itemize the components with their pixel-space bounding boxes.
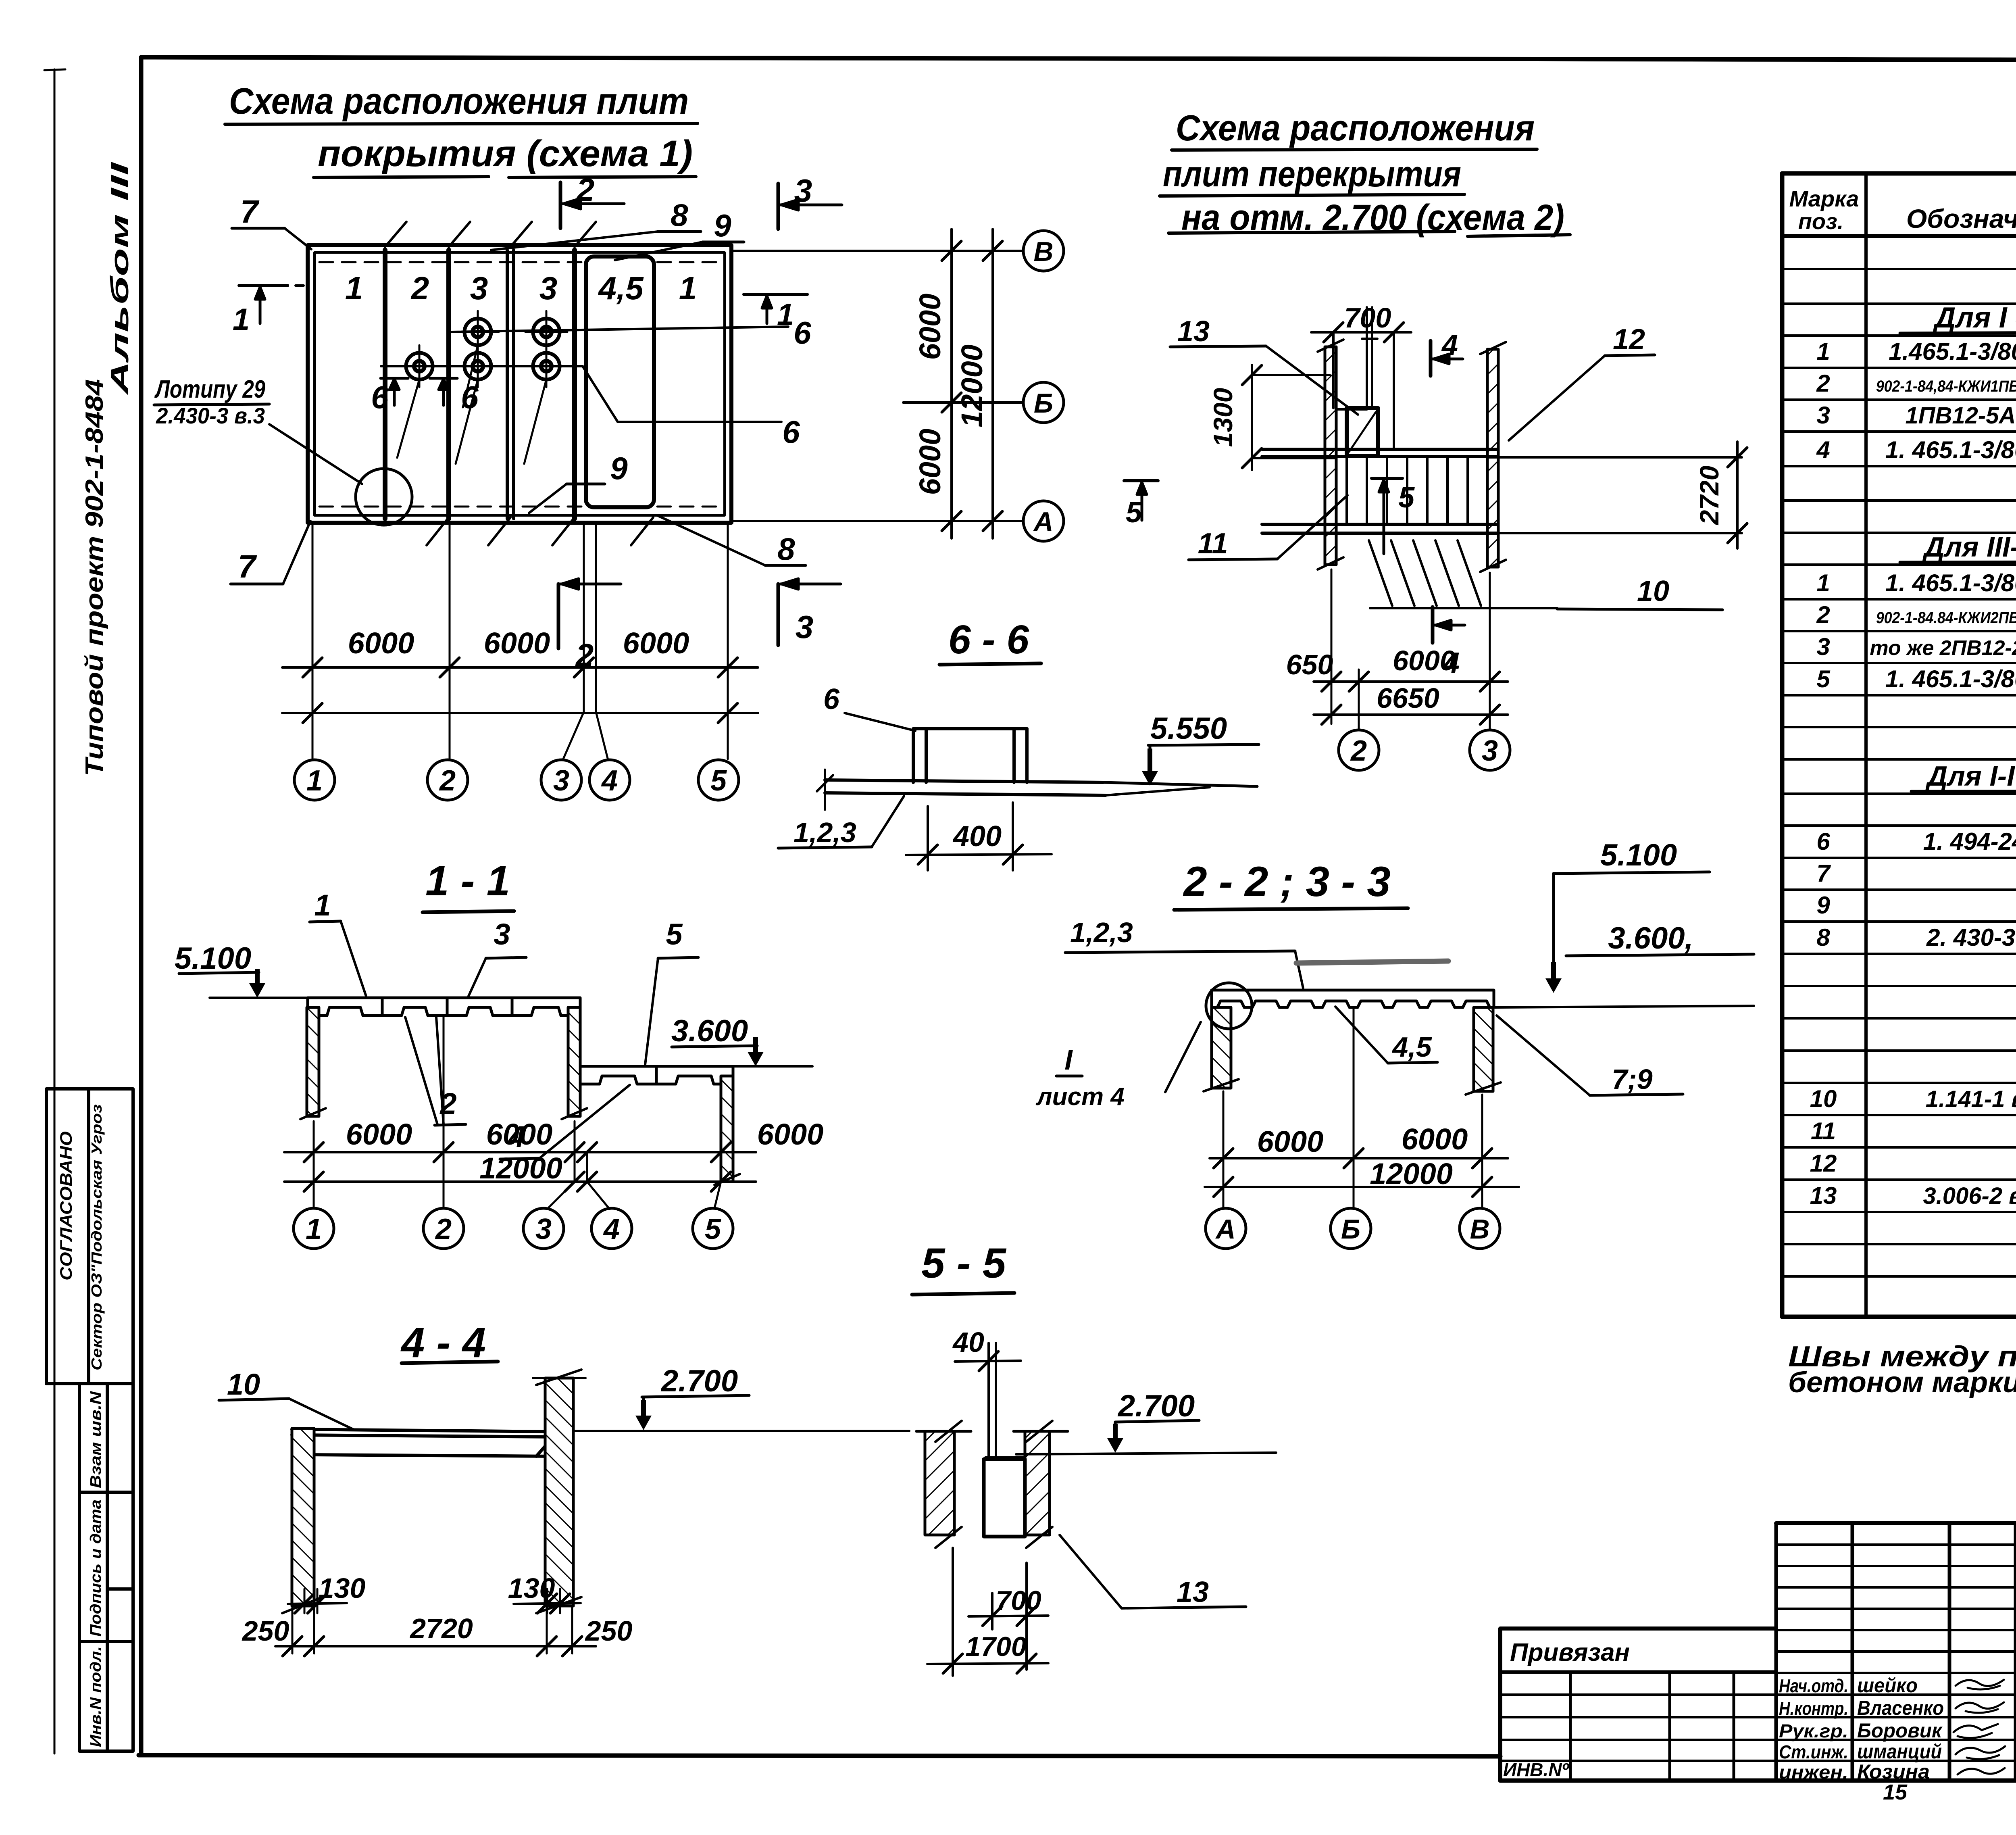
svg-text:5: 5 (1126, 496, 1142, 529)
5-5 dim 1700 (927, 1548, 1048, 1676)
svg-text:3: 3 (494, 917, 510, 951)
svg-text:5: 5 (705, 1213, 721, 1245)
plate joint line x=1425 (572, 250, 577, 519)
svg-text:7: 7 (1816, 860, 1831, 887)
svg-text:Для I-IV снеговых районов: Для I-IV снеговых районов (1925, 760, 2016, 792)
label 13 schema2 (1170, 315, 1358, 415)
svg-text:1,2,3: 1,2,3 (793, 817, 856, 848)
section mark 3 bottom (778, 579, 841, 645)
svg-text:7;9: 7;9 (1612, 1063, 1652, 1095)
svg-text:15: 15 (1883, 1780, 1908, 1804)
svg-text:6000: 6000 (348, 626, 414, 660)
svg-text:2.700: 2.700 (1117, 1389, 1195, 1423)
dimension 650 6000 schema2 (1286, 645, 1508, 691)
svg-text:Привязан: Привязан (1510, 1639, 1630, 1666)
section mark 3 top (778, 173, 842, 229)
svg-text:5.100: 5.100 (1600, 838, 1677, 872)
2-2 label 1,2,3 (1065, 917, 1303, 988)
svg-text:бетоном марки М200 на мелко: бетоном марки М200 на мелком заполнителе… (1788, 1366, 2016, 1399)
title schema 1 line 2 (314, 133, 696, 177)
svg-text:3.006-2 в.П-2: 3.006-2 в.П-2 (1923, 1183, 2016, 1209)
svg-text:5 - 5: 5 - 5 (921, 1240, 1007, 1287)
label 11 schema2 (1189, 495, 1347, 560)
svg-text:1700: 1700 (965, 1631, 1026, 1662)
2-2 label 7;9 (1497, 1016, 1683, 1095)
svg-text:1: 1 (314, 888, 331, 922)
svg-text:650: 650 (1286, 649, 1333, 680)
section 5-5 title (912, 1240, 1014, 1295)
4-4 dims 130 (288, 1572, 581, 1613)
svg-text:2 - 2 ; 3 - 3: 2 - 2 ; 3 - 3 (1183, 858, 1391, 905)
table headers (1789, 186, 2016, 235)
1-1 right wall (714, 1076, 740, 1185)
schema2 top slab (1262, 449, 1497, 457)
schema2 parapet (1336, 307, 1377, 409)
section 6-6 title (939, 617, 1041, 665)
svg-text:Боровик: Боровик (1857, 1719, 1943, 1742)
1-1 leader 5 (645, 917, 698, 1065)
5-5 plate 13 box (984, 1458, 1025, 1537)
svg-text:10: 10 (1637, 575, 1669, 607)
svg-text:Б: Б (1341, 1214, 1360, 1245)
stamp box soglasovano (46, 1089, 133, 1384)
6-6 leader 6 (823, 683, 915, 731)
plate joint line x=955 (383, 250, 387, 519)
svg-text:6 - 6: 6 - 6 (948, 617, 1029, 662)
svg-text:3: 3 (1482, 735, 1498, 767)
svg-text:1.141-1 в. 60: 1.141-1 в. 60 (1926, 1086, 2016, 1112)
svg-text:Обозначение: Обозначение (1906, 204, 2016, 234)
svg-text:3: 3 (535, 1213, 552, 1245)
1-1 bubbles (294, 1208, 334, 1249)
svg-text:2: 2 (1816, 370, 1830, 397)
2-2 dims 6000 (1210, 1122, 1508, 1168)
svg-text:130: 130 (508, 1572, 555, 1604)
title schema 1 line 1 (225, 81, 698, 124)
svg-text:12000: 12000 (479, 1151, 562, 1185)
stakan slanted leaders inside plan (397, 345, 546, 464)
svg-text:СОГЛАСОВАНО: СОГЛАСОВАНО (56, 1131, 75, 1280)
svg-text:I: I (1064, 1044, 1073, 1076)
svg-text:3: 3 (1816, 402, 1830, 429)
svg-text:1: 1 (1816, 338, 1830, 365)
svg-text:1: 1 (306, 1213, 322, 1245)
svg-text:8: 8 (671, 197, 688, 233)
svg-text:В: В (1033, 236, 1053, 267)
schema2 left wall (1318, 340, 1343, 569)
2-2 label I list 4 (1035, 1022, 1201, 1111)
svg-text:6000: 6000 (913, 294, 947, 360)
vertical dimension 12000 right (955, 229, 1002, 538)
6-6 label 1,2,3 (778, 796, 904, 848)
svg-text:6000: 6000 (484, 626, 550, 660)
svg-text:1. 465.1-3/80 вып.5: 1. 465.1-3/80 вып.5 (1885, 569, 2016, 596)
svg-text:5: 5 (1816, 665, 1831, 692)
svg-text:8: 8 (777, 531, 795, 567)
svg-text:9: 9 (714, 208, 731, 243)
svg-text:2: 2 (576, 172, 595, 208)
svg-text:В: В (1470, 1214, 1489, 1245)
svg-text:шманций: шманций (1857, 1740, 1942, 1763)
label po tipu 29 (154, 375, 362, 484)
1-1 roof slab plates (308, 998, 580, 1016)
svg-text:12000: 12000 (1370, 1157, 1453, 1191)
svg-text:6000: 6000 (346, 1118, 412, 1151)
svg-text:Ст.инж.: Ст.инж. (1779, 1741, 1848, 1762)
detail circle on plan (356, 469, 412, 525)
plan outer walls (308, 245, 731, 523)
dimension 700 schema2 (1311, 302, 1411, 449)
svg-text:5: 5 (710, 765, 727, 797)
4-4 extension lines (292, 1589, 572, 1654)
leader label 8 bottom right (657, 515, 806, 567)
svg-text:Сектор ОЗ"Подольская Угроз: Сектор ОЗ"Подольская Угроз (88, 1104, 105, 1370)
svg-text:5: 5 (1398, 482, 1415, 514)
plate joint line x=1113 (446, 250, 451, 519)
2-2 level 3.600 (1566, 921, 1754, 956)
svg-text:Для I - II: Для I - II (1932, 302, 2016, 334)
stamp box podpis i data (79, 1492, 133, 1641)
title schema 2 line 2 (1160, 154, 1464, 196)
svg-text:12: 12 (1810, 1150, 1837, 1177)
svg-text:3: 3 (553, 765, 569, 797)
svg-text:Альбом III: Альбом III (106, 161, 134, 396)
dimension line 6000x3 below plan (282, 626, 758, 677)
svg-text:5.100: 5.100 (175, 941, 251, 976)
2-2 bubbles A B V (1206, 1208, 1246, 1249)
svg-text:7: 7 (238, 548, 257, 584)
svg-text:6: 6 (823, 683, 840, 715)
5-5 level 2.700 (1016, 1389, 1276, 1454)
svg-text:Схема расположения плит: Схема расположения плит (229, 81, 689, 122)
svg-text:6000: 6000 (623, 626, 689, 660)
schema2 lower slab lines (1262, 524, 1497, 533)
schema2 broken plate hatch (1369, 540, 1557, 608)
plate 4,5 rounded outline (586, 256, 654, 507)
svg-text:902-1-84,84-КЖИ1ПВ12-5АтVT-4-1: 902-1-84,84-КЖИ1ПВ12-5АтVT-4-1 (1876, 377, 2016, 395)
2-2 pencil smudge (1296, 961, 1448, 963)
1-1 leader 3 (469, 917, 526, 996)
svg-text:4: 4 (1441, 329, 1458, 361)
svg-text:2.700: 2.700 (660, 1364, 738, 1398)
schema2 right wall (1480, 342, 1506, 572)
plate joint double line x=1266 (507, 250, 514, 519)
outer trim line left (44, 69, 65, 1754)
svg-text:2: 2 (1350, 735, 1367, 767)
svg-text:2. 430-3 в. 3: 2. 430-3 в. 3 (1926, 924, 2016, 951)
2-2 label 4,5 (1335, 1007, 1437, 1063)
svg-text:Взам шв.N: Взам шв.N (87, 1391, 104, 1488)
svg-text:1: 1 (679, 270, 697, 306)
svg-text:1. 465.1-3/80 вып.1: 1. 465.1-3/80 вып.1 (1885, 436, 2016, 463)
leader label 9 top right (615, 208, 744, 260)
1-1 axes below (314, 1016, 721, 1209)
vertical dimension 6000/6000 right (913, 229, 961, 538)
5-5 right wall (1014, 1421, 1068, 1548)
svg-text:1. 494-24 в.1: 1. 494-24 в.1 (1923, 828, 2016, 855)
svg-text:2.430-3 в.3: 2.430-3 в.3 (156, 403, 265, 428)
2-2 level 5.100 (1495, 838, 1754, 1007)
svg-text:2720: 2720 (1694, 465, 1724, 525)
label 10 schema2 (1557, 575, 1722, 610)
title schema 2 line 3 (1168, 198, 1570, 238)
1-1 leader 1 (310, 888, 366, 996)
joint slant ticks top (385, 222, 596, 247)
table data rows (1810, 338, 2016, 1209)
svg-text:2: 2 (1816, 601, 1830, 628)
svg-text:Лотипу 29: Лотипу 29 (154, 375, 266, 403)
svg-text:1: 1 (306, 765, 323, 797)
svg-text:Власенко: Власенко (1857, 1697, 1944, 1719)
svg-text:250: 250 (242, 1615, 289, 1647)
svg-text:8: 8 (1816, 924, 1830, 951)
2-2 dim 12000 (1205, 1157, 1519, 1197)
svg-text:2: 2 (435, 1213, 452, 1245)
svg-text:6: 6 (371, 380, 389, 415)
schema2 axes and dims bottom (1331, 569, 1490, 729)
section mark 4 bottom schema2 (1433, 607, 1465, 679)
svg-text:13: 13 (1177, 315, 1210, 348)
table section titles (1900, 269, 2016, 1049)
title block grid (1776, 1523, 2016, 1781)
stamp box vzam inv (79, 1384, 133, 1492)
2-2 axes below (1223, 1008, 1482, 1208)
svg-text:1: 1 (777, 298, 794, 332)
svg-text:3.600,: 3.600, (1608, 921, 1693, 955)
5-5 dim 700 (968, 1563, 1048, 1670)
svg-text:плит перекрытия: плит перекрытия (1163, 154, 1461, 194)
svg-text:Инв.N подл.: Инв.N подл. (87, 1646, 104, 1747)
svg-text:13: 13 (1177, 1576, 1209, 1608)
row axis leader lines (731, 251, 1023, 521)
svg-text:Типовой проект 902-1-8484: Типовой проект 902-1-8484 (81, 379, 108, 776)
schema2 plate 13 box (1347, 408, 1378, 456)
1-1 dims 6000 (284, 1118, 823, 1162)
svg-text:покрытия (схема 1): покрытия (схема 1) (318, 133, 693, 174)
svg-text:6000: 6000 (1402, 1122, 1468, 1156)
svg-text:6000: 6000 (913, 429, 947, 495)
svg-text:13: 13 (1810, 1182, 1837, 1209)
svg-text:130: 130 (319, 1572, 366, 1604)
4-4 dims 250 2720 250 (242, 1613, 633, 1656)
svg-text:3: 3 (470, 270, 488, 306)
title block privyazan box (1500, 1629, 1776, 1781)
svg-text:3: 3 (1816, 633, 1830, 660)
1-1 level 3.600 (671, 1014, 812, 1066)
svg-text:Козина: Козина (1857, 1760, 1930, 1783)
4-4 right wall (533, 1370, 585, 1613)
svg-text:шейко: шейко (1857, 1674, 1918, 1697)
leader label 8 top right (491, 197, 701, 250)
svg-text:Марка: Марка (1789, 186, 1859, 211)
2-2 detail circle (1206, 983, 1252, 1029)
svg-text:9: 9 (610, 450, 628, 486)
svg-text:11: 11 (1198, 528, 1228, 560)
svg-text:инжен.: инжен. (1779, 1762, 1848, 1783)
svg-text:6: 6 (1816, 828, 1830, 855)
svg-text:6000: 6000 (1257, 1125, 1324, 1158)
5-5 leader 13 (1060, 1535, 1246, 1608)
row bubbles V B A (1023, 231, 1064, 271)
1-1 level 5.100 (175, 941, 308, 998)
section mark 4 top schema2 (1431, 329, 1463, 376)
1-1 leader 2 (405, 1017, 466, 1125)
6-6 cup walls (913, 729, 1027, 782)
svg-text:6000: 6000 (486, 1118, 553, 1151)
svg-text:А: А (1215, 1214, 1235, 1245)
svg-text:2720: 2720 (409, 1613, 473, 1644)
title schema 2 line 1 (1172, 108, 1537, 150)
dimension 2720 schema2 (1489, 442, 1747, 548)
section 4-4 title (400, 1319, 498, 1366)
6-6 dimension 400 (906, 803, 1052, 870)
svg-text:Рук.гр.: Рук.гр. (1779, 1720, 1848, 1741)
svg-text:2: 2 (439, 765, 456, 797)
joint slant ticks bottom (427, 517, 653, 545)
4-4 slab (292, 1429, 558, 1456)
grid axis lines below plan (312, 523, 728, 760)
svg-text:6: 6 (793, 315, 811, 350)
leader line to label 6 lower (381, 366, 800, 450)
svg-text:10: 10 (1810, 1085, 1837, 1112)
leader label 7 top left (232, 194, 311, 249)
svg-text:40: 40 (952, 1326, 984, 1358)
svg-text:1ПВ12-5АтVT-4-2: 1ПВ12-5АтVT-4-2 (1906, 402, 2016, 429)
svg-text:Б: Б (1034, 388, 1053, 419)
2-2 ribbed slab (1212, 990, 1494, 1007)
svg-text:3.600: 3.600 (671, 1014, 748, 1048)
6-6 level 5.550 (1142, 711, 1259, 786)
section mark 5 inner schema2 (1372, 478, 1415, 554)
svg-text:1: 1 (233, 302, 250, 337)
svg-text:то же 2ПВ12-2АтVT-4-2: то же 2ПВ12-2АтVT-4-2 (1870, 636, 2016, 660)
svg-text:6650: 6650 (1377, 682, 1439, 714)
1-1 dim 12000 (284, 1151, 756, 1191)
4-4 left wall (282, 1428, 323, 1613)
svg-text:3: 3 (794, 173, 812, 209)
svg-text:5: 5 (666, 917, 683, 951)
svg-text:9: 9 (1816, 892, 1830, 919)
svg-text:700: 700 (996, 1585, 1041, 1616)
svg-text:Подпись и дата: Подпись и дата (87, 1499, 104, 1637)
specification table grid (1782, 173, 2016, 1317)
4-4 level 2.700 (573, 1364, 909, 1431)
schema2 bubbles 2 3 (1339, 730, 1379, 770)
section 1-1 title (423, 857, 514, 912)
dimension line 18000 below plan (282, 703, 758, 723)
svg-text:Нач.отд.: Нач.отд. (1779, 1675, 1848, 1696)
stakan symbols (crosshair circles) (457, 311, 499, 353)
5-5 joint strip (989, 1343, 996, 1458)
5-5 left wall (916, 1421, 971, 1548)
svg-text:12000: 12000 (955, 344, 989, 427)
svg-text:902-1-84.84-КЖИ2ПВ12-2АтVT-4-1: 902-1-84.84-КЖИ2ПВ12-2АтVT-4-1 (1876, 609, 2016, 627)
column bubbles 1-5 plan (294, 760, 335, 800)
svg-text:ИНВ.Nº: ИНВ.Nº (1503, 1759, 1570, 1780)
svg-text:10: 10 (227, 1368, 260, 1401)
5-5 dim 40 (952, 1326, 1021, 1371)
svg-text:250: 250 (585, 1615, 633, 1647)
svg-text:1.465.1-3/80 вып 1: 1.465.1-3/80 вып 1 (1889, 338, 2016, 365)
section mark 1 left (233, 286, 308, 337)
svg-text:6000: 6000 (757, 1118, 824, 1151)
svg-text:700: 700 (1344, 302, 1391, 334)
svg-text:1. 465.1-3/80 вып.5: 1. 465.1-3/80 вып.5 (1885, 665, 2016, 692)
2-2 left wall (1204, 1007, 1239, 1091)
svg-text:4: 4 (1816, 436, 1830, 463)
svg-text:12: 12 (1613, 323, 1645, 356)
svg-text:4,5: 4,5 (1391, 1031, 1432, 1063)
svg-text:Схема расположения: Схема расположения (1176, 108, 1535, 148)
svg-text:4: 4 (603, 1213, 620, 1245)
2-2 right wall (1466, 1007, 1501, 1095)
4-4 leader 10 (219, 1368, 355, 1430)
svg-text:3: 3 (796, 609, 814, 645)
svg-text:2: 2 (410, 270, 429, 306)
6-6 floor slab (817, 769, 1257, 810)
svg-text:4: 4 (601, 765, 618, 797)
section 6 cut arrows in plan (371, 378, 479, 415)
svg-text:5.550: 5.550 (1150, 711, 1227, 746)
section mark 2 top (560, 172, 624, 228)
svg-text:4 - 4: 4 - 4 (400, 1319, 486, 1366)
svg-text:А: А (1033, 507, 1053, 537)
svg-text:поз.: поз. (1798, 209, 1844, 234)
svg-text:1 - 1: 1 - 1 (425, 857, 510, 905)
1-1 middle wall (562, 1007, 587, 1119)
leader line to label 6 upper (452, 315, 811, 350)
1-1 leader 4 (500, 1085, 630, 1159)
svg-text:Н.контр.: Н.контр. (1779, 1698, 1848, 1719)
label 12 schema2 (1509, 323, 1655, 440)
svg-text:3: 3 (539, 270, 558, 306)
leader label 7 bottom left (231, 521, 310, 584)
dimension 1300 schema2 (1208, 365, 1335, 470)
stamp box inv n podl (79, 1641, 133, 1751)
section mark 1 right (744, 294, 807, 332)
section mark 2 bottom (558, 579, 621, 673)
dimension 6650 schema2 (1314, 682, 1508, 724)
schema2 ribs (1347, 457, 1468, 524)
svg-text:7: 7 (240, 194, 260, 229)
svg-text:11: 11 (1811, 1118, 1836, 1145)
svg-text:лист 4: лист 4 (1035, 1083, 1125, 1111)
section mark 5 left schema2 (1124, 481, 1158, 529)
plan hidden dashed lines (319, 262, 723, 507)
1-1 left wall (300, 1007, 326, 1119)
svg-text:6000: 6000 (1393, 645, 1456, 676)
svg-text:6: 6 (782, 414, 800, 450)
svg-text:1,2,3: 1,2,3 (1070, 917, 1133, 948)
svg-text:400: 400 (952, 820, 1002, 853)
leader label 9 bottom middle (529, 450, 628, 513)
svg-text:1: 1 (345, 270, 363, 306)
svg-text:Для III-IV снеговых районов: Для III-IV снеговых районов (1922, 531, 2016, 563)
section 2-2 3-3 title (1174, 858, 1408, 910)
1-1 lower roof plates (580, 1066, 733, 1084)
svg-text:1300: 1300 (1208, 388, 1238, 447)
svg-text:4,5: 4,5 (598, 270, 644, 306)
svg-text:1: 1 (1816, 569, 1830, 596)
title block signatures (1779, 1674, 2005, 1783)
